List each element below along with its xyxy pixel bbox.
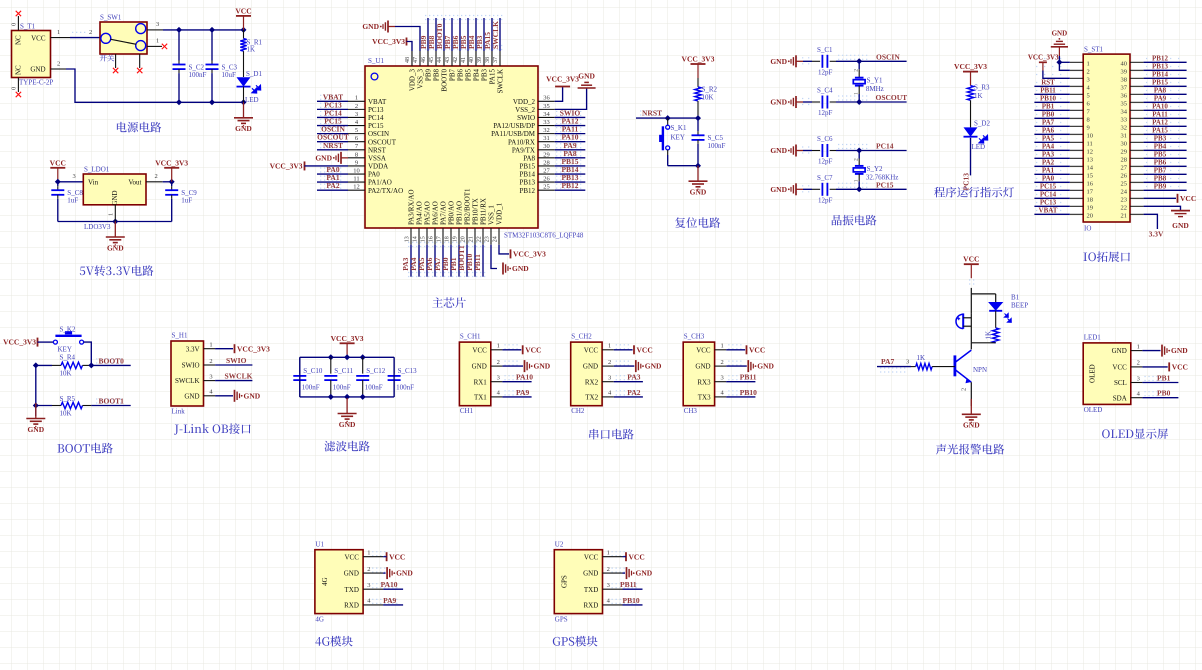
svg-text:PB0: PB0	[1157, 389, 1171, 398]
pin 25	[1130, 181, 1144, 183]
svg-text:OSCIN: OSCIN	[368, 130, 389, 138]
svg-text:TXD: TXD	[345, 586, 359, 594]
svg-text:Vin: Vin	[88, 178, 99, 186]
svg-text:PB6: PB6	[457, 69, 465, 82]
svg-text:TX3: TX3	[698, 394, 711, 402]
svg-text:26: 26	[543, 176, 550, 183]
svg-text:10: 10	[353, 167, 360, 174]
svg-text:3: 3	[607, 582, 610, 589]
svg-text:VCC: VCC	[749, 345, 765, 354]
resistor R3 1K	[967, 86, 973, 101]
svg-text:PB11/RX: PB11/RX	[480, 198, 488, 225]
svg-text:PA8: PA8	[523, 154, 535, 162]
svg-text:PB10: PB10	[623, 596, 640, 605]
pin 19 PB1/AO	[458, 228, 460, 245]
svg-text:TYPE-C-2P: TYPE-C-2P	[19, 79, 53, 87]
pin 17 PA7/AO	[442, 228, 444, 245]
svg-text:34: 34	[1121, 109, 1128, 116]
svg-text:GND: GND	[963, 421, 980, 430]
resistor R5 10K	[36, 405, 52, 407]
pin 24	[1130, 189, 1144, 191]
svg-text:PB13: PB13	[519, 179, 535, 187]
svg-text:PC14: PC14	[368, 114, 384, 122]
svg-text:PB12: PB12	[1152, 55, 1168, 63]
svg-text:PA8: PA8	[1154, 87, 1167, 95]
pin 39	[1130, 69, 1144, 71]
no-ERC marker	[16, 92, 21, 97]
svg-text:PB11: PB11	[473, 254, 482, 271]
pin 16	[1070, 181, 1083, 183]
svg-text:33: 33	[543, 119, 550, 126]
svg-text:2: 2	[1087, 69, 1090, 76]
svg-text:20: 20	[460, 236, 466, 242]
svg-text:43: 43	[445, 57, 451, 63]
bottom rail	[300, 396, 394, 398]
svg-text:RXD: RXD	[584, 602, 599, 610]
switch SW1	[100, 22, 147, 54]
ground GND	[383, 572, 386, 574]
top rail	[300, 356, 394, 358]
regulator LDO1	[83, 174, 146, 205]
svg-text:PB4: PB4	[1154, 143, 1167, 151]
svg-text:GND: GND	[107, 243, 124, 252]
pin 7	[1070, 109, 1083, 111]
svg-text:PB13: PB13	[1152, 63, 1168, 71]
svg-text:GND: GND	[184, 392, 199, 400]
pin 35 VSS_2	[538, 108, 555, 110]
svg-text:2: 2	[1137, 360, 1140, 367]
pin 9	[1070, 125, 1083, 127]
svg-text:NRST: NRST	[323, 141, 343, 150]
svg-text:GND: GND	[770, 57, 787, 66]
wire GND of T1 to bottom rail	[66, 69, 244, 102]
svg-text:PB6: PB6	[1154, 159, 1167, 167]
svg-text:VCC: VCC	[584, 553, 599, 561]
svg-text:0: 0	[11, 87, 18, 90]
svg-text:BEEP: BEEP	[1011, 302, 1028, 310]
capacitor S_C13 100nF	[393, 357, 395, 373]
pin 46 PB9	[427, 51, 429, 66]
header CH1	[459, 342, 490, 406]
svg-text:VBAT: VBAT	[1039, 207, 1058, 215]
net 3.3V io pin21	[1144, 214, 1158, 229]
pin 37	[1130, 85, 1144, 87]
pin 4 PC15	[348, 125, 365, 127]
svg-text:10K: 10K	[60, 370, 72, 378]
svg-text:SWCLK: SWCLK	[175, 377, 200, 385]
svg-text:24: 24	[1121, 189, 1128, 196]
ground GND bottom right	[491, 245, 497, 269]
pin 43 PB7	[451, 51, 453, 66]
pin 2 GND of T1	[51, 68, 67, 70]
svg-text:100nF: 100nF	[396, 384, 414, 392]
svg-text:GND: GND	[583, 363, 598, 371]
svg-text:STM32F103C8T6_LQFP48: STM32F103C8T6_LQFP48	[504, 232, 584, 240]
svg-text:30: 30	[543, 143, 550, 150]
crystal S_Y1 8MHz	[858, 61, 860, 69]
net PB11	[726, 381, 755, 383]
pin 18	[1070, 197, 1083, 199]
power VCC_3V3 right	[555, 87, 563, 102]
svg-text:GND: GND	[770, 98, 787, 107]
svg-text:38: 38	[485, 57, 491, 63]
svg-text:14: 14	[1087, 165, 1094, 172]
svg-text:29: 29	[543, 151, 550, 158]
svg-text:VDDA: VDDA	[368, 163, 388, 171]
wire NRST	[636, 117, 698, 119]
svg-text:NRST: NRST	[642, 109, 662, 118]
svg-text:33: 33	[1121, 117, 1128, 124]
svg-text:GND: GND	[339, 420, 356, 429]
svg-text:32: 32	[543, 127, 550, 134]
pin 1 GND of LDO	[114, 205, 116, 222]
svg-text:14: 14	[412, 236, 418, 242]
svg-text:VSSA: VSSA	[368, 154, 386, 162]
svg-text:GND: GND	[344, 570, 359, 578]
label kaiguan	[100, 55, 107, 62]
svg-text:30: 30	[1121, 141, 1128, 148]
svg-text:25: 25	[1121, 181, 1128, 188]
capacitor C9 1uF	[171, 182, 173, 186]
svg-text:GPS: GPS	[560, 575, 568, 588]
svg-text:NC: NC	[15, 35, 23, 45]
svg-text:16: 16	[1087, 181, 1094, 188]
svg-text:PB5: PB5	[465, 69, 473, 82]
power VCC	[502, 349, 521, 351]
ground GND filter	[346, 397, 348, 399]
svg-text:1K: 1K	[247, 46, 256, 54]
svg-text:3: 3	[720, 375, 723, 382]
svg-text:22: 22	[1121, 205, 1128, 212]
svg-text:S_CH2: S_CH2	[571, 333, 592, 341]
pin 16 PA6/AO	[434, 228, 436, 245]
svg-text:1K: 1K	[917, 354, 926, 362]
svg-text:VCC: VCC	[1172, 363, 1188, 372]
svg-text:PA2: PA2	[1042, 159, 1055, 167]
svg-text:VCC: VCC	[50, 158, 66, 167]
svg-text:S_R5: S_R5	[60, 395, 76, 403]
svg-text:PA6: PA6	[1042, 127, 1055, 135]
svg-text:GND: GND	[512, 264, 529, 273]
svg-text:VSS_3: VSS_3	[417, 69, 425, 89]
svg-text:2: 2	[608, 359, 611, 366]
net PA10	[383, 588, 403, 590]
pin 12	[1070, 149, 1083, 151]
svg-text:2: 2	[720, 359, 723, 366]
svg-text:VCC: VCC	[344, 553, 359, 561]
module GPS	[554, 550, 602, 614]
svg-text:S_CH1: S_CH1	[460, 333, 481, 341]
ground GND	[623, 572, 626, 574]
pin 26 PB13	[538, 181, 555, 183]
power VCC oled	[1142, 366, 1167, 368]
svg-text:CH1: CH1	[460, 407, 474, 415]
net SWIO	[215, 364, 252, 366]
pin 39 PB3	[483, 51, 485, 66]
pin 45 PB8	[435, 51, 437, 66]
title program indicator	[934, 187, 945, 198]
pin 15	[1070, 173, 1083, 175]
net PB1	[1142, 382, 1178, 384]
svg-text:IO: IO	[1084, 225, 1091, 233]
svg-text:PC15: PC15	[876, 180, 894, 189]
pin 2	[1070, 69, 1083, 71]
pin 12 PA2/TX/AO	[348, 189, 365, 191]
display LED1 OLED	[1083, 343, 1131, 405]
power VCC io pin23	[1144, 197, 1176, 199]
svg-text:GND: GND	[235, 124, 252, 133]
pin 22	[1130, 205, 1144, 207]
module 4G	[315, 550, 363, 614]
svg-text:KEY: KEY	[58, 346, 72, 354]
svg-text:GND: GND	[636, 569, 653, 578]
power VCC	[614, 349, 633, 351]
svg-text:8: 8	[355, 151, 358, 158]
svg-text:1uF: 1uF	[181, 197, 192, 205]
svg-text:1: 1	[156, 37, 159, 44]
svg-text:VCC_3V3: VCC_3V3	[546, 75, 579, 84]
resistor 1K vertical	[995, 311, 997, 328]
svg-text:VCC: VCC	[1112, 364, 1127, 372]
svg-text:CH2: CH2	[571, 407, 585, 415]
wire pin3	[1043, 71, 1070, 79]
svg-text:B1: B1	[1011, 294, 1020, 302]
svg-text:1: 1	[1087, 61, 1090, 68]
svg-text:PA5: PA5	[1042, 135, 1055, 143]
header ST1 40-pin IO	[1083, 54, 1130, 222]
svg-text:GND: GND	[583, 570, 598, 578]
svg-text:S_D1: S_D1	[246, 70, 262, 78]
svg-text:PA9: PA9	[383, 596, 396, 605]
svg-text:PB1: PB1	[1157, 374, 1171, 383]
pin 37 SWCLK	[499, 51, 501, 66]
pin 48 VDD_3	[411, 51, 413, 66]
capacitor C2 100nF	[178, 30, 180, 61]
title serial	[589, 429, 598, 440]
title BOOT circuit	[57, 444, 64, 452]
net PA3	[614, 381, 643, 383]
svg-text:VCC: VCC	[472, 346, 487, 354]
svg-text:S_R2: S_R2	[702, 86, 718, 94]
svg-text:BOOT0: BOOT0	[441, 69, 449, 92]
svg-text:GND: GND	[362, 22, 379, 31]
ground GND reset	[697, 166, 699, 181]
svg-text:10K: 10K	[60, 410, 72, 418]
svg-text:2: 2	[155, 173, 158, 180]
svg-text:PA10/RX: PA10/RX	[508, 138, 535, 146]
svg-text:38: 38	[1121, 77, 1128, 84]
svg-text:S_Y1: S_Y1	[867, 77, 883, 85]
svg-text:VSS_1: VSS_1	[488, 205, 496, 225]
pin 5 OSCIN	[348, 133, 365, 135]
pin 1 of SW1 unconnected	[147, 45, 162, 47]
svg-text:40: 40	[469, 57, 475, 63]
svg-text:S_C13: S_C13	[398, 367, 418, 375]
svg-text:23: 23	[484, 236, 490, 242]
svg-text:100nF: 100nF	[302, 384, 320, 392]
svg-text:PB14: PB14	[519, 171, 535, 179]
svg-text:1: 1	[107, 213, 114, 216]
svg-text:PA11: PA11	[1152, 111, 1168, 119]
svg-text:PB7: PB7	[1154, 167, 1167, 175]
svg-text:PB12: PB12	[519, 187, 535, 195]
crystal S_Y2 32.768KHz	[858, 151, 860, 159]
svg-text:PB3: PB3	[481, 69, 489, 82]
svg-text:100nF: 100nF	[333, 384, 351, 392]
title 4G	[315, 637, 321, 646]
connector T1 TYPE-C-2P	[12, 31, 51, 78]
svg-text:12pF: 12pF	[818, 68, 833, 76]
svg-text:S_C4: S_C4	[817, 87, 833, 95]
wire pin2	[1059, 62, 1069, 70]
svg-text:PB5: PB5	[1154, 151, 1167, 159]
svg-text:37: 37	[1121, 85, 1128, 92]
svg-text:LDO3V3: LDO3V3	[84, 223, 111, 231]
svg-text:GND: GND	[396, 569, 413, 578]
svg-text:LED1: LED1	[1084, 333, 1102, 341]
capacitor C5 100nF	[697, 118, 699, 131]
svg-text:3: 3	[156, 21, 159, 28]
svg-text:4G: 4G	[321, 577, 329, 586]
svg-text:3: 3	[209, 373, 212, 380]
svg-text:LED: LED	[972, 143, 986, 151]
svg-text:RST: RST	[1041, 79, 1055, 87]
svg-text:S_CH3: S_CH3	[684, 333, 705, 341]
svg-text:PB11: PB11	[1040, 87, 1056, 95]
svg-text:GND: GND	[27, 425, 44, 434]
svg-text:GND: GND	[1112, 347, 1127, 355]
svg-text:TXD: TXD	[584, 586, 598, 594]
top node wire	[971, 293, 995, 295]
svg-text:PB8: PB8	[433, 69, 441, 82]
svg-text:3: 3	[355, 111, 358, 118]
header CH2	[571, 342, 602, 406]
svg-text:PA10: PA10	[381, 580, 398, 589]
pin 7 NRST	[348, 149, 365, 151]
pin 1 VBAT	[348, 100, 365, 102]
pin 29	[1130, 149, 1144, 151]
title reset circuit	[675, 217, 685, 228]
svg-text:BOOT0: BOOT0	[99, 356, 125, 365]
svg-text:VCC_3V3: VCC_3V3	[270, 162, 303, 171]
svg-text:SWIO: SWIO	[182, 362, 200, 370]
resistor R1 1K	[243, 30, 245, 39]
title main chip	[432, 297, 443, 307]
svg-text:PB15: PB15	[1152, 79, 1168, 87]
svg-text:40: 40	[1121, 61, 1128, 68]
svg-text:22: 22	[476, 236, 482, 242]
pin 0 top of T1	[17, 16, 19, 31]
svg-text:15: 15	[420, 236, 426, 242]
svg-text:1: 1	[608, 343, 611, 350]
svg-text:PC15: PC15	[368, 122, 384, 130]
svg-text:GND: GND	[695, 363, 710, 371]
svg-text:U1: U1	[315, 541, 324, 549]
svg-text:10: 10	[1087, 133, 1094, 140]
svg-text:GND: GND	[757, 362, 774, 371]
junction bottom rail	[176, 99, 182, 105]
svg-text:TX2: TX2	[585, 394, 598, 402]
pin 22 PB11/RX	[482, 228, 484, 245]
svg-text:S_Y2: S_Y2	[867, 165, 883, 173]
svg-text:12pF: 12pF	[818, 109, 833, 117]
svg-text:2: 2	[853, 69, 859, 72]
svg-text:PB7: PB7	[449, 69, 457, 82]
svg-text:S_ST1: S_ST1	[1084, 46, 1104, 54]
svg-text:1: 1	[853, 179, 859, 182]
svg-text:1: 1	[607, 550, 610, 557]
svg-text:2: 2	[853, 158, 859, 161]
pin 25 PB12	[538, 189, 555, 191]
svg-text:2: 2	[89, 29, 92, 36]
wire pin1	[1059, 61, 1069, 63]
pin 21 PB10/TX	[474, 228, 476, 245]
svg-text:18: 18	[444, 236, 450, 242]
svg-text:SCL: SCL	[1114, 379, 1127, 387]
svg-text:PB8: PB8	[1154, 175, 1167, 183]
svg-text:OSCOUT: OSCOUT	[368, 138, 397, 146]
svg-text:26: 26	[1121, 173, 1128, 180]
svg-text:12: 12	[1087, 149, 1094, 156]
pin 0 bottom of T1	[17, 78, 19, 93]
svg-text:RX3: RX3	[697, 378, 711, 386]
svg-text:10uF: 10uF	[222, 71, 237, 79]
svg-text:PB11: PB11	[620, 580, 637, 589]
svg-text:OLED: OLED	[1084, 406, 1103, 414]
svg-text:VCC: VCC	[235, 6, 251, 15]
svg-text:VCC_3V3: VCC_3V3	[513, 250, 546, 259]
svg-text:0: 0	[11, 23, 18, 26]
svg-text:PA9/TX: PA9/TX	[512, 146, 535, 154]
pin 29 PA8	[538, 157, 555, 159]
svg-text:OSCOUT: OSCOUT	[876, 93, 908, 102]
svg-text:GPS: GPS	[555, 616, 568, 624]
svg-text:27: 27	[543, 167, 550, 174]
svg-text:PA2: PA2	[326, 181, 339, 190]
ground GND	[114, 222, 116, 237]
svg-text:GND: GND	[30, 66, 45, 74]
title alarm	[936, 444, 946, 455]
svg-text:31: 31	[1121, 133, 1128, 140]
svg-text:1: 1	[853, 92, 859, 95]
pin 6 OSCOUT	[348, 141, 365, 143]
svg-text:1: 1	[497, 343, 500, 350]
transistor Q NPN	[954, 355, 957, 376]
svg-text:GND: GND	[1171, 346, 1188, 355]
svg-text:11: 11	[353, 176, 359, 183]
svg-text:PA7: PA7	[1042, 119, 1055, 127]
svg-text:19: 19	[1087, 205, 1094, 212]
svg-text:3: 3	[1137, 375, 1140, 382]
svg-text:41: 41	[461, 57, 467, 63]
wire K2 to BOOT0	[84, 342, 92, 365]
pin 2 PC13	[348, 108, 365, 110]
wire SW1 to VCC rail	[163, 29, 244, 31]
pin 32 PA11/USB/DM	[538, 133, 555, 135]
power VCC	[386, 552, 388, 561]
svg-text:VCC: VCC	[31, 35, 46, 43]
pin 33	[1130, 117, 1144, 119]
svg-text:47: 47	[413, 57, 419, 63]
svg-text:PA11/USB/DM: PA11/USB/DM	[491, 130, 536, 138]
pin 3	[1070, 77, 1083, 79]
svg-text:PB15: PB15	[519, 163, 535, 171]
svg-text:PA9: PA9	[516, 388, 529, 397]
svg-text:36: 36	[1121, 93, 1128, 100]
svg-text:13: 13	[404, 236, 410, 242]
svg-text:3: 3	[1087, 77, 1090, 84]
SW1 bottom pins	[115, 54, 117, 68]
